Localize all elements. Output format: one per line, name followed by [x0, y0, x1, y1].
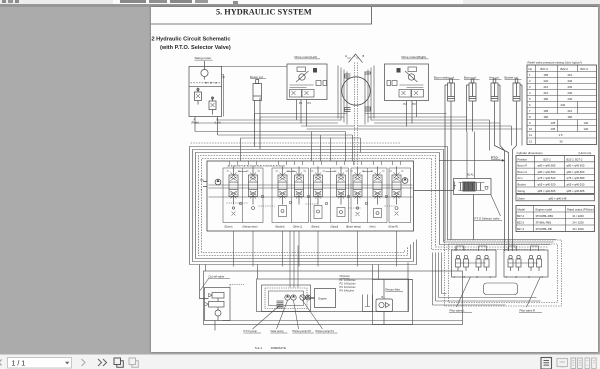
pipe bundle through rotary joint (right) — [365, 65, 374, 124]
browser top strip remnants — [0, 0, 600, 4]
pump labels — [243, 329, 334, 333]
wires from drive motor (Left) — [296, 99, 306, 126]
wire from swing block to drive motor left — [220, 65, 287, 67]
svg-text:Engine: Engine — [318, 296, 327, 300]
bank center bus — [203, 181, 413, 197]
cylinder dimensions table — [516, 151, 595, 201]
svg-text:P.T.O: P.T.O — [491, 155, 498, 159]
svg-text:φ75 × φ40-520: φ75 × φ40-520 — [537, 176, 555, 180]
piston pump P2 circle — [290, 294, 295, 299]
svg-text:Relief valve pressure setting: Relief valve pressure setting (Unit: kg/… — [527, 60, 581, 64]
P.T.O selector valve — [413, 131, 491, 239]
svg-text:Dr: Dr — [222, 76, 225, 79]
svg-text:3TN66L-RB1: 3TN66L-RB1 — [535, 220, 551, 224]
title block box — [151, 7, 372, 24]
svg-text:B27-2: B27-2 — [517, 213, 525, 217]
cut-off valve block — [199, 264, 244, 330]
svg-text:P.T.O pump: P.T.O pump — [243, 329, 257, 333]
drive motor (Left) label — [294, 55, 320, 59]
spool (Swing) — [246, 166, 260, 204]
svg-text:5: 5 — [529, 97, 531, 101]
svg-text:Cut-off valve: Cut-off valve — [208, 274, 224, 278]
svg-text:(Drive L): (Drive L) — [293, 225, 302, 228]
svg-text:Piston pump P1: Piston pump P1 — [315, 329, 334, 333]
center dashed pipes through joint — [354, 62, 357, 165]
svg-text:B27-2: B27-2 — [540, 67, 548, 71]
svg-text:Pilot valve R: Pilot valve R — [519, 308, 535, 312]
svg-text:H: H — [345, 54, 347, 58]
svg-text:1.5: 1.5 — [558, 133, 562, 137]
svg-text:1: 1 — [529, 73, 531, 77]
spool (Dozer) — [226, 166, 240, 204]
svg-text:Dozer: Dozer — [517, 196, 524, 200]
bank section divider wires — [238, 168, 373, 223]
svg-text:P1: P1 — [299, 101, 303, 105]
pilot feed bundle to pilot valves — [432, 252, 540, 305]
pump inlet circle right — [402, 177, 408, 183]
oil pump spec text — [339, 275, 356, 293]
drive motor (Right) block — [384, 64, 428, 101]
engine-pump enclosure — [256, 279, 408, 312]
P.T.O pump gerotor stack — [276, 301, 283, 308]
bank section labels — [224, 225, 398, 228]
under-spool pilot elements — [226, 203, 398, 219]
pilot valve R label — [519, 276, 542, 312]
svg-text:B22-2, B27-2: B22-2, B27-2 — [566, 157, 582, 161]
svg-text:A4 B4 A3 B3 P2 A7 A2 B: A4 B4 A3 B3 P2 A7 A2 B2 A6 B6 A1 B1 A3 B… — [227, 164, 285, 167]
P.T.O feed arrow line — [439, 159, 505, 162]
svg-text:Dozer cyl.: Dozer cyl. — [250, 74, 264, 78]
svg-text:φ80 × φ40-565: φ80 × φ40-565 — [537, 163, 555, 167]
svg-text:Swing motor: Swing motor — [194, 56, 211, 60]
svg-text:3: 3 — [529, 85, 531, 89]
svg-text:φ80 × φ45-560: φ80 × φ45-560 — [566, 169, 584, 173]
svg-text:φ85 × φ45-605: φ85 × φ45-605 — [566, 188, 584, 192]
svg-text:T: T — [200, 189, 202, 192]
svg-text:(Bucket): (Bucket) — [275, 225, 284, 228]
svg-text:Boom C: Boom C — [517, 169, 527, 173]
svg-text:230: 230 — [567, 85, 572, 89]
svg-text:Rated output (PS/rpm): Rated output (PS/rpm) — [567, 207, 594, 211]
svg-text:P3: P3 — [412, 102, 416, 106]
svg-text:B27-2: B27-2 — [543, 157, 551, 161]
boom cylinder — [466, 79, 476, 132]
svg-text:Engine model: Engine model — [535, 207, 552, 211]
svg-text:7: 7 — [529, 109, 531, 113]
svg-text:19990617E: 19990617E — [270, 346, 285, 350]
drain stubs under bank — [233, 231, 396, 288]
relief valve pressure setting table — [527, 60, 597, 144]
pilot valve L label — [449, 276, 472, 312]
svg-text:185: 185 — [543, 109, 548, 113]
svg-text:5-2-1: 5-2-1 — [255, 346, 262, 350]
svg-text:P2: P2 — [403, 102, 407, 106]
svg-text:Model: Model — [517, 207, 525, 211]
svg-text:210: 210 — [543, 85, 548, 89]
spool arrow details — [230, 172, 399, 198]
svg-text:Boom cyl.: Boom cyl. — [464, 75, 477, 79]
valve bank port tick row — [229, 161, 400, 165]
pilot valve dashed enclosure — [444, 240, 561, 306]
svg-text:P.T.O Selector valve: P.T.O Selector valve — [474, 216, 499, 220]
svg-text:11: 11 — [529, 133, 532, 137]
svg-text:Swing: Swing — [517, 188, 525, 192]
svg-text:26 / 2200: 26 / 2200 — [572, 226, 584, 230]
dozer cyl label — [250, 74, 266, 78]
pump circle 4 — [305, 295, 310, 300]
pump leader lines — [252, 300, 322, 329]
svg-text:(Boom swing): (Boom swing) — [346, 225, 361, 228]
spool (Drive L) — [292, 166, 306, 204]
svg-text:135: 135 — [550, 127, 555, 131]
svg-text:Oil pump: Oil pump — [339, 275, 350, 278]
outer pilot-line loop 2 — [192, 149, 553, 261]
svg-text:1 / 1: 1 / 1 — [12, 360, 26, 367]
svg-text:220: 220 — [543, 79, 548, 83]
svg-text:(Dozer): (Dozer) — [224, 225, 232, 228]
svg-text:185: 185 — [543, 73, 548, 77]
outer pilot-line loop 4 — [198, 155, 547, 255]
svg-text:21 / 2200: 21 / 2200 — [572, 213, 584, 217]
spool (Bucket) — [275, 166, 289, 204]
svg-text:(Unit:mm): (Unit:mm) — [578, 151, 591, 155]
svg-text:5-2 Hydraulic Circuit Schemati: 5-2 Hydraulic Circuit Schematic — [151, 36, 230, 42]
drain lines bottom — [205, 262, 462, 320]
svg-text:Bucket: Bucket — [517, 182, 525, 186]
joint port tabs — [344, 72, 370, 112]
svg-text:P4: 8.4cc/rev: P4: 8.4cc/rev — [339, 289, 354, 292]
svg-text:Boom P: Boom P — [517, 163, 527, 167]
rotary joint top marks — [347, 54, 363, 63]
svg-text:240: 240 — [567, 91, 572, 95]
svg-text:180: 180 — [567, 115, 572, 119]
rotary joint (swivel) — [341, 76, 369, 104]
svg-text:φ65 × φ40-520: φ65 × φ40-520 — [537, 182, 555, 186]
control valve bank outline — [207, 161, 414, 231]
svg-text:Arm: Arm — [517, 176, 523, 180]
swing motor label — [194, 56, 212, 60]
gear pump circle — [284, 294, 289, 299]
arm cylinder — [491, 79, 509, 251]
boom cyl label — [464, 75, 480, 79]
svg-text:9: 9 — [529, 121, 531, 125]
spool (Boom swing) — [350, 166, 364, 204]
svg-text:Return filter: Return filter — [385, 287, 400, 291]
svg-text:(Swing motor): (Swing motor) — [242, 225, 257, 228]
spool (Boom) — [311, 166, 325, 204]
drive motor (Left) block — [287, 64, 327, 100]
cut-off valve label — [208, 274, 230, 278]
svg-text:240: 240 — [560, 103, 565, 107]
svg-text:30: 30 — [559, 139, 563, 143]
svg-text:B22-2: B22-2 — [517, 220, 525, 224]
svg-text:Position: Position — [517, 157, 527, 161]
svg-text:B: B — [362, 54, 364, 58]
svg-text:180: 180 — [543, 97, 548, 101]
svg-text:Drive motor(Left): Drive motor(Left) — [294, 55, 317, 59]
svg-text:210: 210 — [567, 109, 572, 113]
svg-text:2: 2 — [529, 79, 531, 83]
svg-text:Cylinder dimensions: Cylinder dimensions — [516, 151, 543, 155]
svg-text:3TNC88L-RB1: 3TNC88L-RB1 — [535, 213, 553, 217]
wires from swing motor down — [195, 116, 218, 135]
svg-text:Piston pump P2: Piston pump P2 — [292, 329, 311, 333]
svg-text:φ80 × φ45-630: φ80 × φ45-630 — [566, 163, 584, 167]
svg-text:φ80 × φ40-148: φ80 × φ40-148 — [548, 196, 566, 200]
svg-text:8: 8 — [529, 115, 531, 119]
pilot dashed top line — [190, 142, 400, 144]
dozer cylinder — [253, 79, 262, 149]
svg-text:φ75 × φ45-580: φ75 × φ45-580 — [566, 176, 584, 180]
svg-text:(Spool): (Spool) — [330, 225, 338, 228]
white PDF page — [151, 7, 598, 352]
boom swing cyl label — [434, 75, 460, 79]
svg-text:B27-2: B27-2 — [580, 67, 588, 71]
svg-text:240: 240 — [567, 97, 572, 101]
drive motor (Right) label — [401, 55, 428, 59]
arm cyl label — [489, 75, 502, 79]
svg-text:P4: P4 — [307, 101, 311, 105]
P.T.O selector valve label — [474, 195, 502, 221]
svg-text:φ65 × φ40-510: φ65 × φ40-510 — [566, 182, 584, 186]
svg-text:(with P.T.O. Selector Valve): (with P.T.O. Selector Valve) — [160, 44, 231, 50]
spool (Drive R) — [389, 166, 403, 204]
svg-text:24 / 2200: 24 / 2200 — [572, 220, 584, 224]
pump assembly nested boxes — [261, 285, 310, 312]
P.T.O label — [491, 155, 501, 159]
svg-text:φ85 × φ40-605: φ85 × φ40-605 — [537, 188, 555, 192]
pipe bundle through rotary joint (left) — [338, 65, 347, 124]
svg-text:B22-2: B22-2 — [560, 67, 568, 71]
return filter label — [385, 287, 403, 291]
outer pilot-line loop 1 — [189, 146, 556, 264]
svg-text:No: No — [528, 67, 532, 71]
bus drop wires into valve bank — [240, 113, 522, 160]
piston pump P1 circle — [299, 294, 304, 299]
return filter enclosure + tank — [362, 279, 412, 324]
bucket cyl label — [504, 75, 521, 79]
shuttle block — [483, 283, 517, 295]
svg-text:240: 240 — [567, 79, 572, 83]
bank inner sub-rects — [223, 168, 411, 223]
engine box — [304, 288, 335, 307]
svg-text:4: 4 — [529, 91, 531, 95]
boom swing cylinder — [445, 79, 455, 240]
svg-text:(Drive R): (Drive R) — [388, 225, 398, 228]
bottom viewer toolbar — [0, 354, 600, 369]
spool (Arm) — [370, 166, 384, 204]
svg-text:3TNC88L-RB: 3TNC88L-RB — [535, 226, 551, 230]
pump area outer rect — [203, 271, 462, 325]
svg-text:140: 140 — [583, 127, 588, 131]
pilot valve R group — [504, 246, 548, 277]
svg-text:(Arm): (Arm) — [369, 225, 375, 228]
outer pilot-line loop 5 — [201, 158, 544, 252]
pump inlet circle left — [215, 179, 221, 185]
svg-text:180: 180 — [543, 115, 548, 119]
svg-text:B1 A1: B1 A1 — [467, 173, 474, 176]
svg-text:210: 210 — [567, 73, 572, 77]
wires from drive motor (Right) — [406, 100, 416, 126]
svg-text:210: 210 — [543, 91, 548, 95]
svg-text:140: 140 — [583, 121, 588, 125]
svg-text:B: B — [381, 296, 383, 299]
svg-text:135: 135 — [550, 121, 555, 125]
svg-text:φ80 × φ40-560: φ80 × φ40-560 — [537, 169, 555, 173]
svg-text:5. HYDRAULIC SYSTEM: 5. HYDRAULIC SYSTEM — [216, 7, 312, 16]
bucket cylinder — [512, 79, 522, 251]
horizontal hose bus lines — [195, 113, 522, 161]
swing motor block — [189, 61, 224, 117]
svg-text:10: 10 — [529, 127, 533, 131]
svg-text:Gear pump: Gear pump — [270, 329, 284, 333]
pilot valve L group — [451, 246, 496, 277]
svg-text:(Boom): (Boom) — [311, 225, 319, 228]
model / engine table — [516, 205, 595, 231]
bank small port circles — [239, 195, 387, 204]
svg-text:B27-2: B27-2 — [517, 226, 525, 230]
return filter element — [376, 279, 393, 324]
svg-text:12: 12 — [529, 139, 533, 143]
svg-text:Drive motor(Right): Drive motor(Right) — [401, 55, 426, 59]
spool (Spool) — [334, 166, 348, 204]
svg-text:6: 6 — [529, 103, 531, 107]
outer pilot-line loop 3 — [195, 152, 550, 258]
